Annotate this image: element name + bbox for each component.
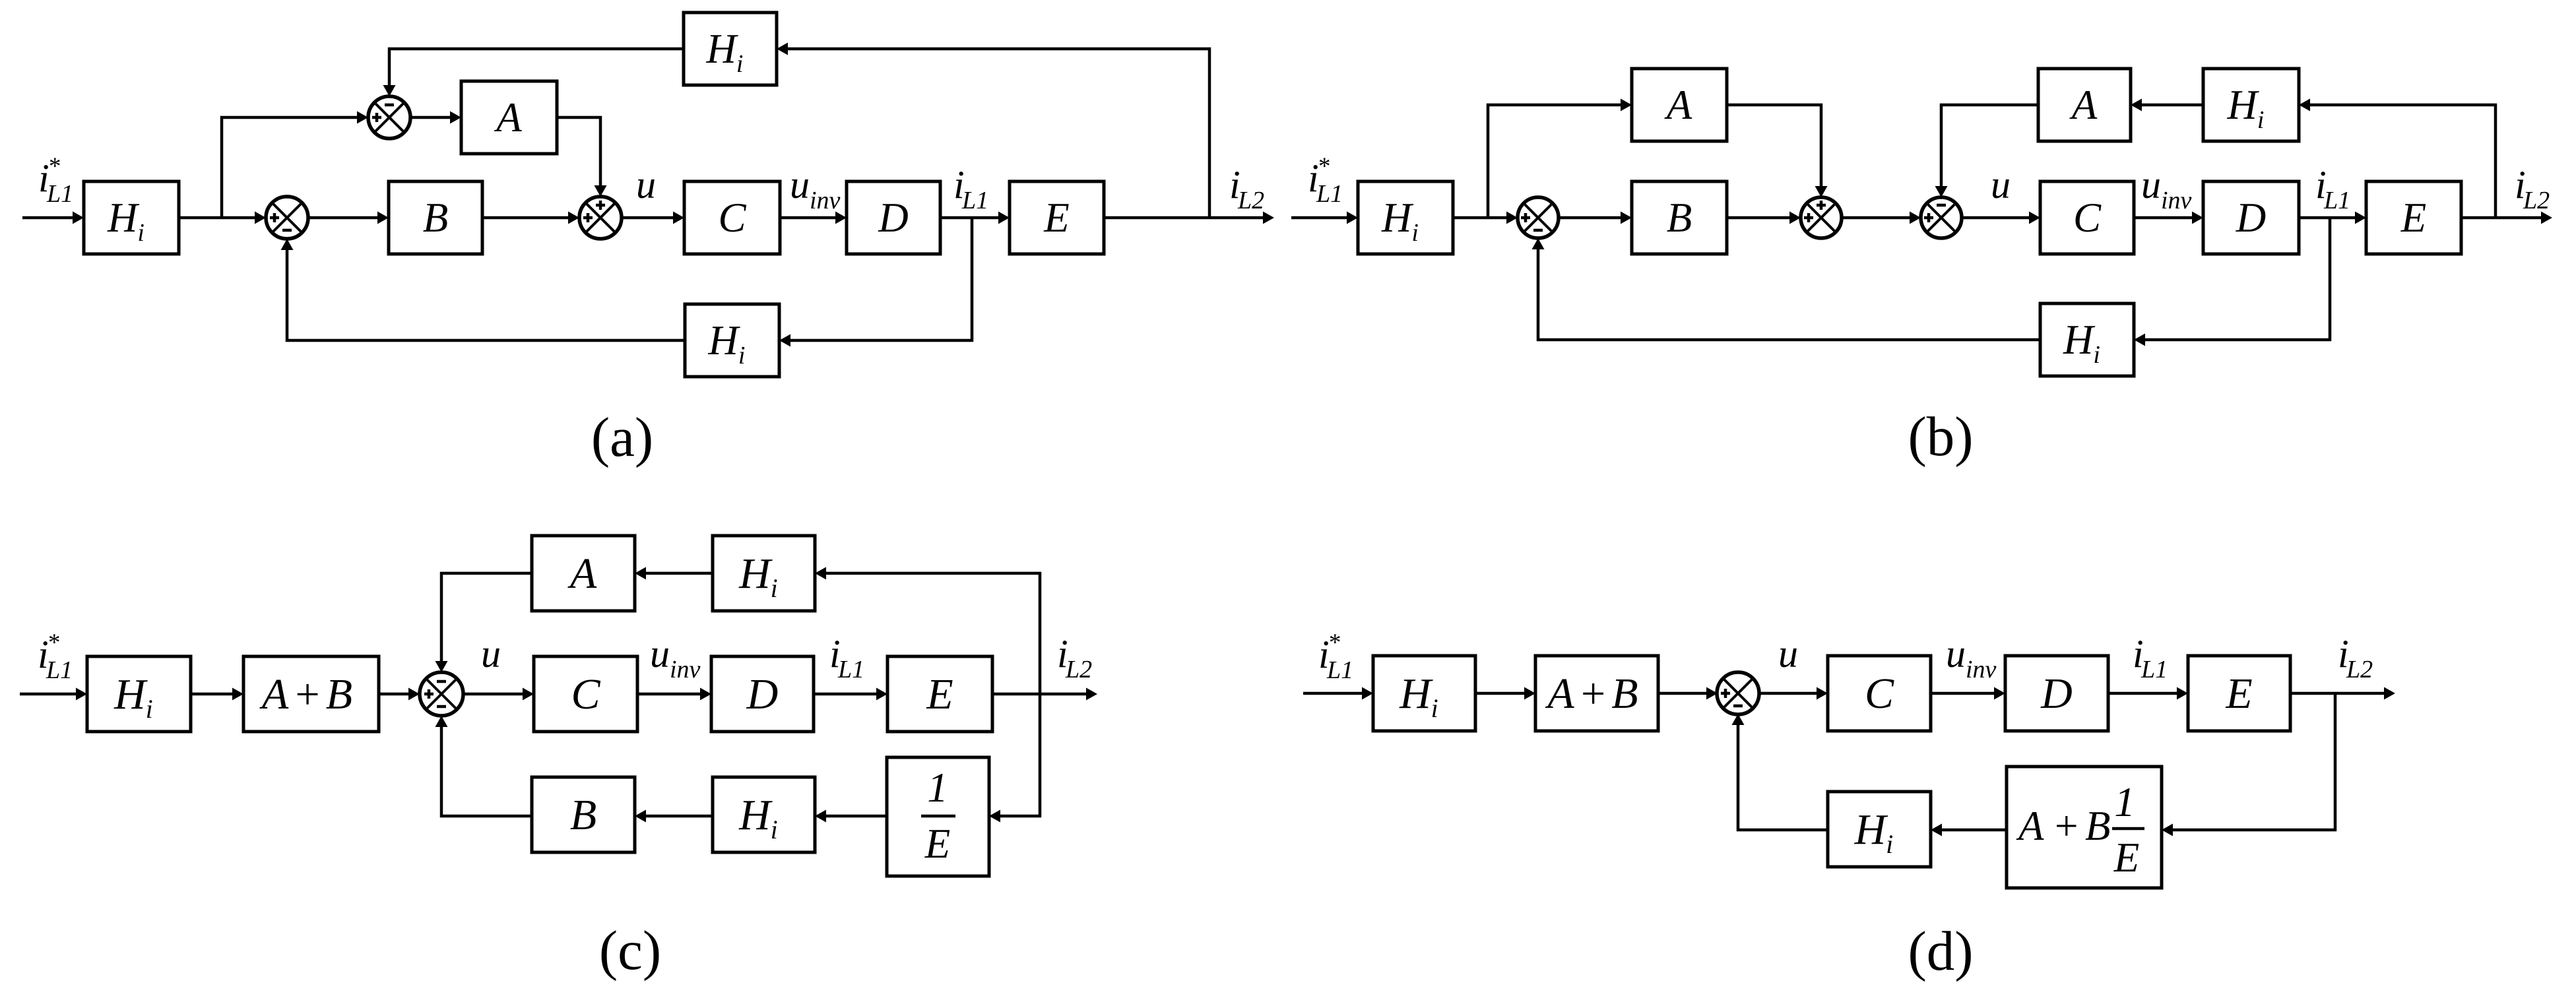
svg-text:D: D (878, 195, 909, 241)
svg-text:i: i (771, 815, 778, 844)
svg-text:*: * (48, 629, 61, 656)
svg-text:i: i (1431, 693, 1438, 723)
svg-text:(c): (c) (599, 920, 661, 982)
svg-text:B: B (570, 791, 596, 839)
svg-text:H: H (738, 550, 773, 598)
svg-text:L1: L1 (46, 180, 73, 208)
svg-text:D: D (746, 670, 779, 718)
svg-text:H: H (2063, 317, 2096, 363)
svg-text:inv: inv (1966, 656, 1997, 683)
svg-text:B: B (2085, 803, 2110, 849)
svg-text:C: C (1865, 670, 1894, 718)
svg-text:(d): (d) (1908, 920, 1973, 982)
svg-text:H: H (1381, 195, 1414, 241)
svg-text:H: H (2227, 82, 2260, 128)
svg-text:E: E (2113, 835, 2139, 881)
svg-text:A+B: A+B (259, 670, 356, 718)
svg-text:inv: inv (2161, 187, 2192, 214)
svg-text:inv: inv (670, 656, 701, 683)
svg-text:A: A (2069, 82, 2098, 128)
svg-text:*: * (49, 153, 61, 180)
svg-text:u: u (481, 632, 501, 676)
svg-text:E: E (924, 821, 950, 867)
svg-text:H: H (107, 195, 140, 241)
svg-text:u: u (790, 163, 810, 206)
svg-text:A+B: A+B (1545, 670, 1642, 718)
svg-text:i: i (146, 694, 153, 724)
svg-text:i: i (2257, 106, 2265, 134)
svg-text:L1: L1 (2141, 656, 2168, 683)
svg-text:(a): (a) (591, 406, 653, 468)
svg-text:inv: inv (810, 187, 841, 214)
svg-text:H: H (708, 317, 741, 363)
svg-text:C: C (2073, 195, 2102, 241)
svg-text:1: 1 (2114, 779, 2135, 825)
svg-text:1: 1 (927, 765, 948, 811)
svg-text:L1: L1 (46, 656, 73, 684)
svg-text:i: i (1886, 829, 1893, 859)
svg-text:E: E (1043, 195, 1069, 241)
svg-text:L1: L1 (2323, 187, 2350, 214)
svg-text:B: B (1667, 195, 1692, 241)
svg-text:D: D (2236, 195, 2267, 241)
svg-text:+: + (2052, 803, 2080, 849)
svg-text:i: i (738, 342, 746, 369)
svg-text:u: u (1946, 632, 1966, 676)
svg-text:L2: L2 (1065, 656, 1092, 683)
svg-text:L2: L2 (1237, 187, 1264, 214)
svg-text:u: u (1778, 632, 1798, 676)
svg-text:H: H (1854, 805, 1888, 854)
svg-text:H: H (706, 26, 739, 72)
svg-text:E: E (2225, 670, 2252, 718)
svg-text:H: H (738, 791, 773, 839)
svg-text:i: i (2093, 341, 2100, 369)
svg-text:i: i (137, 219, 145, 247)
svg-text:L2: L2 (2346, 656, 2373, 683)
svg-text:L1: L1 (1326, 656, 1353, 684)
svg-text:A: A (2016, 803, 2044, 849)
svg-text:A: A (567, 550, 597, 598)
svg-text:L1: L1 (837, 656, 864, 683)
svg-text:i: i (1411, 219, 1419, 247)
svg-text:*: * (1318, 153, 1331, 180)
svg-text:C: C (718, 195, 746, 241)
svg-text:E: E (2400, 195, 2426, 241)
svg-text:u: u (2141, 163, 2161, 206)
svg-text:*: * (1329, 629, 1341, 656)
svg-text:u: u (636, 163, 656, 206)
svg-text:E: E (926, 670, 953, 718)
svg-text:C: C (571, 670, 600, 718)
svg-text:L1: L1 (961, 187, 988, 214)
svg-text:i: i (771, 573, 778, 603)
svg-text:L1: L1 (1316, 180, 1343, 208)
svg-text:u: u (1991, 163, 2011, 206)
svg-text:A: A (494, 94, 522, 141)
svg-text:D: D (2040, 670, 2073, 718)
svg-text:L2: L2 (2523, 187, 2550, 214)
svg-text:A: A (1664, 82, 1692, 128)
svg-text:i: i (736, 50, 744, 78)
svg-text:H: H (1399, 670, 1433, 718)
svg-text:(b): (b) (1908, 406, 1973, 468)
svg-text:B: B (423, 195, 448, 241)
svg-text:u: u (650, 632, 670, 676)
svg-text:H: H (113, 670, 148, 718)
